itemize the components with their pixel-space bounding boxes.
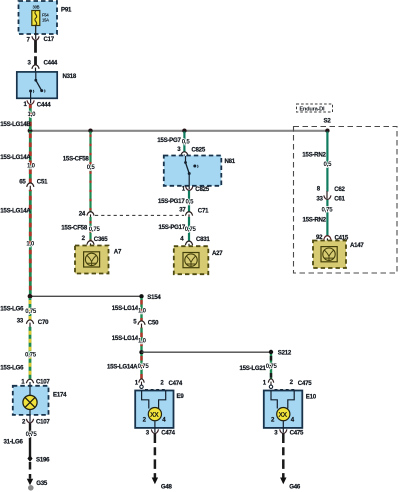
svg-text:A7: A7 <box>114 248 122 255</box>
connector C17 pin 7 <box>27 36 55 43</box>
switch box N318 <box>17 72 77 98</box>
connector C50 pin 5 <box>133 319 159 329</box>
svg-text:C50: C50 <box>148 319 159 326</box>
connector C474 pin 3 <box>146 429 176 436</box>
svg-text:C17: C17 <box>44 36 55 43</box>
wire 15S-LG21 (green/black) <box>240 354 278 379</box>
svg-text:N318: N318 <box>63 73 77 80</box>
svg-text:1,0: 1,0 <box>28 111 37 118</box>
dashed harness line between pin24 and C71 <box>95 214 184 216</box>
Endura-DI label box <box>297 104 333 112</box>
connector C444 pin 1 <box>24 100 52 108</box>
svg-text:15S-LG14A: 15S-LG14A <box>0 154 31 161</box>
connector C70 pin 33 <box>17 317 49 327</box>
svg-text:15S-LG6: 15S-LG6 <box>0 365 24 372</box>
svg-text:33: 33 <box>316 195 323 202</box>
svg-text:N81: N81 <box>225 158 236 165</box>
svg-text:S154: S154 <box>147 294 161 301</box>
svg-text:0,75: 0,75 <box>266 363 278 370</box>
svg-text:C51: C51 <box>37 179 48 186</box>
switch box N81 (dashed) <box>164 156 236 186</box>
connector C107 pin 2 <box>22 418 50 425</box>
lamp E9 bulb XX <box>142 391 167 433</box>
svg-text:0,75: 0,75 <box>26 431 38 438</box>
svg-text:15S-LG21: 15S-LG21 <box>240 365 267 372</box>
splice bus 15S-LG14B (horizontal gray) <box>30 130 327 132</box>
svg-text:XX: XX <box>278 412 287 419</box>
inline connector pin 24 <box>79 210 94 217</box>
wire 15S-PG17 upper (teal) <box>158 191 194 213</box>
lamp E174 bulb <box>23 386 37 422</box>
svg-text:0,5: 0,5 <box>182 139 191 146</box>
svg-text:C831: C831 <box>196 236 210 243</box>
node: junction at left bus end <box>28 128 33 133</box>
svg-text:15S-PG17: 15S-PG17 <box>159 224 186 231</box>
wire: thick black feed C17 to C444 <box>34 41 37 66</box>
svg-text:31-LG6: 31-LG6 <box>4 438 24 445</box>
svg-text:0,5: 0,5 <box>87 164 96 171</box>
node: junction bus/CF58 <box>88 129 92 133</box>
wire 15S-LG14B vertical (green/red) <box>0 105 36 130</box>
node: junction bus/PG7 <box>182 129 186 133</box>
svg-text:XX: XX <box>150 412 159 419</box>
connector C51 pin 65 <box>19 178 48 190</box>
svg-text:0,75: 0,75 <box>138 363 150 370</box>
injector A147 (dashed yellow box) <box>313 241 364 269</box>
svg-text:0,75: 0,75 <box>322 206 334 213</box>
svg-text:C475: C475 <box>290 429 304 436</box>
wire 15S-LG6 upper (green/yellow) <box>0 298 37 320</box>
ground G35 <box>27 479 48 491</box>
svg-text:0,75: 0,75 <box>185 226 197 233</box>
svg-text:15S-LG14A: 15S-LG14A <box>107 364 138 371</box>
svg-text:1,0: 1,0 <box>138 337 147 344</box>
svg-text:1,0: 1,0 <box>26 240 35 247</box>
svg-text:0,75: 0,75 <box>25 308 37 315</box>
svg-text:E9: E9 <box>177 393 185 400</box>
wire 15S-PG17 lower (teal) <box>159 217 197 242</box>
node: junction LG14A/LG6 <box>28 294 33 299</box>
svg-text:G46: G46 <box>289 483 301 490</box>
wire 15S-CF58 lower <box>61 217 100 241</box>
connector C444 pin 3 <box>28 59 58 72</box>
ground wire to G48 (dashed black) <box>154 434 157 478</box>
bus wire to S154 (horizontal) <box>30 295 142 297</box>
inline connector C61 pin 33 <box>316 195 345 202</box>
svg-text:C107: C107 <box>36 378 50 385</box>
Endura-DI boundary (dashed) <box>294 127 398 274</box>
svg-text:15S-CF58: 15S-CF58 <box>61 225 88 232</box>
ground G48 <box>152 478 173 491</box>
svg-text:E174: E174 <box>53 391 67 398</box>
wire 15S-LG6 lower (green/yellow) <box>0 327 36 380</box>
inline connector C62 pin 8 <box>317 186 346 199</box>
svg-text:15S-RN2: 15S-RN2 <box>303 216 327 223</box>
svg-text:C474: C474 <box>169 380 183 387</box>
svg-text:65: 65 <box>19 178 26 185</box>
svg-text:0,5: 0,5 <box>324 161 333 168</box>
wire 15S-LG14A lower (green/red) <box>0 190 35 294</box>
svg-text:15S-PG17: 15S-PG17 <box>158 198 185 205</box>
svg-text:15S-LG6: 15S-LG6 <box>0 306 24 313</box>
switch contacts inside N81 <box>184 156 198 189</box>
svg-text:E10: E10 <box>306 394 317 401</box>
svg-text:1,0: 1,0 <box>138 307 147 314</box>
svg-text:C444: C444 <box>44 60 58 67</box>
node S212 <box>269 349 292 356</box>
wire 15S-RN2 upper (teal) <box>302 132 332 192</box>
svg-text:C825: C825 <box>195 186 209 193</box>
svg-text:C107: C107 <box>36 418 50 425</box>
wire 15S-LG14 lower (green/red) <box>112 328 147 350</box>
svg-text:S2: S2 <box>324 118 332 125</box>
ground wire to G35 (dashed black) <box>29 462 32 479</box>
node S154 <box>139 294 161 301</box>
svg-text:0,5: 0,5 <box>186 198 195 205</box>
svg-text:C62: C62 <box>334 186 345 193</box>
wire 15S-LG14 upper (green/red) <box>112 298 147 321</box>
svg-text:0,75: 0,75 <box>89 226 101 233</box>
connector C107 pin 1 <box>21 378 50 386</box>
svg-text:15S-PG7: 15S-PG7 <box>157 137 181 144</box>
svg-text:C70: C70 <box>38 319 49 326</box>
svg-text:C475: C475 <box>298 380 312 387</box>
node: junction LG14/LG14A <box>139 350 143 354</box>
connector C415 pin 92 <box>316 234 349 241</box>
ground G46 <box>280 478 301 491</box>
svg-text:G35: G35 <box>36 480 48 487</box>
connector C831 pin 4 <box>180 235 210 246</box>
svg-text:C71: C71 <box>198 208 209 215</box>
svg-text:30B: 30B <box>33 5 40 10</box>
svg-text:S196: S196 <box>36 456 50 463</box>
connector C365 pin 2 <box>82 235 109 246</box>
switch contacts inside N318 <box>29 72 45 103</box>
connector C474 pins 1,2 <box>135 379 183 390</box>
connector C825 pin 3 <box>177 146 206 156</box>
svg-text:15A: 15A <box>42 17 49 22</box>
svg-text:15S-LG14A: 15S-LG14A <box>0 208 31 215</box>
svg-text:C444: C444 <box>37 102 51 109</box>
connector C475 pins 1,2 <box>263 379 312 390</box>
svg-text:15S-RN2: 15S-RN2 <box>302 151 326 158</box>
svg-text:A27: A27 <box>212 250 223 257</box>
svg-text:C365: C365 <box>94 236 108 243</box>
svg-text:0,75: 0,75 <box>25 351 37 358</box>
svg-text:33: 33 <box>17 317 24 324</box>
svg-text:15S-LG14B: 15S-LG14B <box>0 121 31 128</box>
svg-text:15S-CF58: 15S-CF58 <box>63 156 90 163</box>
node S2 <box>324 118 332 133</box>
svg-text:Endura-DI: Endura-DI <box>299 106 325 112</box>
ground wire to G46 (dashed black) <box>282 434 285 478</box>
wire 15S-LG14A upper (green/red) <box>0 132 35 184</box>
fuse F54 15A <box>32 5 50 40</box>
svg-text:G48: G48 <box>161 483 173 490</box>
wire 15S-RN2 lower (teal) <box>303 200 334 236</box>
wire 15S-PG7 (teal) <box>157 132 190 153</box>
svg-text:15S-LG14: 15S-LG14 <box>112 305 139 312</box>
fuse box P91 (dashed) <box>19 1 72 34</box>
svg-text:37: 37 <box>179 207 186 214</box>
lamp box E10 <box>264 391 317 428</box>
injector A7 (dashed yellow box) <box>75 246 122 274</box>
wire 15S-CF58 upper (green w/ red stripe) <box>63 132 96 213</box>
inline connector C71 pin 37 <box>179 207 209 218</box>
connector C475 pin 3 <box>274 429 304 436</box>
svg-text:A147: A147 <box>350 242 364 249</box>
lamp box E9 <box>135 391 184 428</box>
bus wire to S212 (horizontal) <box>142 351 272 353</box>
wire 31-LG6 (black) <box>4 423 38 457</box>
injector A27 (dashed yellow box) <box>174 246 223 274</box>
node S196 <box>27 455 50 463</box>
svg-text:S212: S212 <box>278 349 292 356</box>
svg-text:24: 24 <box>79 210 86 217</box>
svg-text:C61: C61 <box>334 196 345 203</box>
lamp E10 bulb XX <box>271 391 295 433</box>
svg-text:C825: C825 <box>191 147 205 154</box>
svg-text:C474: C474 <box>161 429 175 436</box>
connector C825 pin 1 <box>182 186 210 194</box>
svg-text:P91: P91 <box>61 6 72 13</box>
svg-text:15S-LG14: 15S-LG14 <box>112 335 139 342</box>
lamp box E174 (dashed) <box>13 386 67 415</box>
svg-text:1,0: 1,0 <box>27 162 36 169</box>
wire 15S-LG14A to E9 (green/red) <box>107 354 149 379</box>
